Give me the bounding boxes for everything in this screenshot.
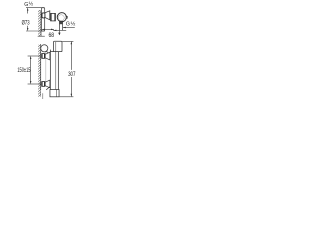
bottom union cone [45, 80, 50, 88]
centre line of unions [45, 49, 47, 85]
union bulge [42, 13, 45, 18]
svg-text:G: G [66, 22, 70, 28]
wall (front view) [38, 44, 43, 99]
bottom diagonal [46, 86, 50, 89]
knob B (bottom) [50, 90, 59, 97]
knob A (top) [54, 41, 63, 51]
outlet circle (front) [41, 45, 48, 52]
cone [45, 11, 50, 20]
svg-text:Ø73: Ø73 [22, 20, 30, 27]
body column [50, 50, 62, 97]
outlet diagonal to body [46, 51, 50, 54]
outlet stem G1/2 [59, 21, 62, 30]
knob circle [57, 13, 66, 22]
dimension 150±15 [28, 56, 42, 84]
dimension 68 [42, 28, 54, 30]
nut (side) [51, 13, 56, 21]
svg-text:68: 68 [48, 32, 54, 39]
escutcheon (side profile, 73 tall) [41, 8, 44, 31]
svg-text:½: ½ [29, 1, 34, 8]
wall (side view) [38, 10, 45, 36]
top union cone [45, 52, 50, 60]
dimension D73 [26, 8, 45, 31]
top union nut [42, 54, 45, 59]
bottom union nut [42, 82, 45, 87]
svg-text:½: ½ [71, 20, 76, 27]
svg-text:150±15: 150±15 [17, 67, 30, 74]
svg-text:307: 307 [68, 71, 75, 78]
dimension 307 [59, 41, 73, 97]
